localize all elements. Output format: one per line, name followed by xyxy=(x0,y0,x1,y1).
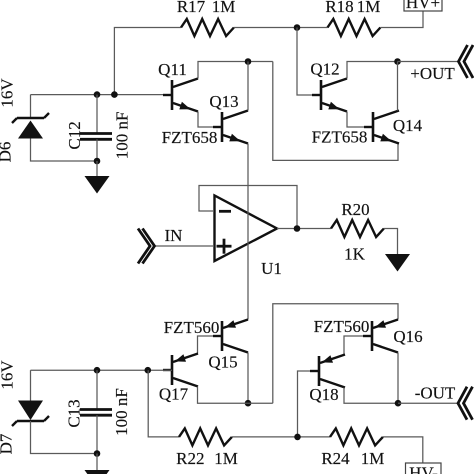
resistor R20 xyxy=(331,220,384,237)
ground below C13 xyxy=(85,454,110,474)
transistor Q15 xyxy=(213,320,248,353)
node bottom rail riser xyxy=(145,367,152,374)
svg-text:Q12: Q12 xyxy=(310,60,339,79)
transistor Q12 xyxy=(312,79,347,112)
svg-text:+OUT: +OUT xyxy=(410,64,455,83)
svg-text:U1: U1 xyxy=(261,259,282,278)
svg-text:C13: C13 xyxy=(65,399,84,427)
svg-text:100 nF: 100 nF xyxy=(113,112,132,160)
transistor Q16 xyxy=(363,320,398,353)
transistor Q11 xyxy=(163,79,198,112)
wire node to Q13 collector xyxy=(247,62,249,111)
zener D6 xyxy=(12,95,97,161)
wire Q11 emitter to Q13 base xyxy=(198,112,213,128)
wire R17 to R18 xyxy=(234,27,328,29)
node -OUT xyxy=(395,400,402,407)
svg-text:HV-: HV- xyxy=(409,464,438,474)
node rail riser xyxy=(111,91,118,98)
svg-text:16V: 16V xyxy=(0,78,17,108)
svg-text:Q18: Q18 xyxy=(309,385,338,404)
svg-text:1M: 1M xyxy=(212,0,236,16)
transistor Q14 xyxy=(364,111,399,144)
svg-text:1M: 1M xyxy=(214,449,238,468)
resistor R17 xyxy=(181,19,234,36)
transistor Q18 xyxy=(310,355,345,388)
wire Q16 base to Q18 emitter xyxy=(344,336,363,355)
wire op-amp output xyxy=(277,228,331,230)
wire node down to Q14 emitter return xyxy=(273,62,398,161)
capacitor C12 xyxy=(80,95,112,161)
svg-text:FZT560: FZT560 xyxy=(164,318,220,337)
wire bottom rail left segment xyxy=(148,370,179,437)
svg-text:Q11: Q11 xyxy=(158,60,187,79)
zener D7 xyxy=(12,370,97,453)
svg-text:FZT658: FZT658 xyxy=(162,128,218,147)
svg-text:HV+: HV+ xyxy=(406,0,440,12)
node Q11/Q13 collector xyxy=(245,58,252,65)
transistor Q13 xyxy=(213,111,248,144)
svg-text:-OUT: -OUT xyxy=(415,384,456,403)
node junction R17/R18/Q12-base xyxy=(294,24,301,31)
svg-text:D7: D7 xyxy=(0,433,16,454)
terminal -OUT chevron xyxy=(458,387,473,420)
svg-text:Q13: Q13 xyxy=(209,92,238,111)
svg-text:1M: 1M xyxy=(361,449,385,468)
node +OUT xyxy=(394,58,401,65)
wire R18 to HV+ xyxy=(380,11,423,28)
capacitor C13 xyxy=(80,370,112,453)
node Q15/Q17 collectors xyxy=(245,400,252,407)
svg-text:D6: D6 xyxy=(0,142,15,163)
wire top-left riser and R17 left lead xyxy=(114,28,181,95)
svg-text:1M: 1M xyxy=(357,0,381,16)
wire node riser to Q16 emitter xyxy=(273,304,398,404)
resistor R22 xyxy=(179,428,232,445)
svg-text:R18: R18 xyxy=(325,0,353,16)
wire -OUT node to terminal xyxy=(398,402,458,404)
svg-text:Q14: Q14 xyxy=(393,116,423,135)
wire lower bias rail xyxy=(31,369,173,371)
node op-amp output xyxy=(294,225,301,232)
svg-text:FZT560: FZT560 xyxy=(314,317,370,336)
terminal HV- box xyxy=(406,463,442,474)
svg-text:Q16: Q16 xyxy=(393,327,422,346)
svg-text:IN: IN xyxy=(165,226,183,245)
svg-text:R17: R17 xyxy=(177,0,206,16)
wire +OUT node to terminal xyxy=(398,61,459,63)
terminal IN chevron xyxy=(138,229,155,264)
wire R22 to R24 xyxy=(232,436,330,438)
op-amp U1 xyxy=(215,196,278,262)
wire +OUT node down to Q14 collector xyxy=(397,62,399,111)
wire feedback loop xyxy=(199,186,297,229)
node C12 top xyxy=(94,91,101,98)
node R22/R24 junction xyxy=(294,434,301,441)
wire Q15 collector down to node xyxy=(247,353,249,404)
resistor R18 xyxy=(328,19,381,36)
transistor Q17 xyxy=(163,354,198,387)
wire Q13 emitter to Q15 emitter (through op-amp) xyxy=(247,144,249,320)
wire Q15 base to Q17 emitter xyxy=(198,336,214,354)
wire left bias rail xyxy=(31,94,173,96)
svg-text:R24: R24 xyxy=(321,449,350,468)
terminal HV+ box xyxy=(404,0,442,11)
svg-text:Q17: Q17 xyxy=(159,385,189,404)
wire Q12 emitter to Q14 base xyxy=(347,112,364,128)
svg-text:FZT658: FZT658 xyxy=(312,128,368,147)
svg-text:Q15: Q15 xyxy=(208,353,237,372)
svg-text:1K: 1K xyxy=(344,245,366,264)
node D7/C13 junction xyxy=(94,450,101,457)
wire Q18 collector to -OUT node xyxy=(344,388,398,404)
ground below R20 xyxy=(385,254,410,272)
wire Q11 collector to node xyxy=(198,62,273,79)
wire Q12 base drop xyxy=(297,28,312,96)
svg-text:R20: R20 xyxy=(341,200,369,219)
node D6/C12 junction xyxy=(94,158,101,165)
wire Q12 collector to +OUT node xyxy=(347,62,398,79)
svg-text:16V: 16V xyxy=(0,360,17,390)
wire R24 to HV- xyxy=(383,437,423,463)
terminal +OUT chevron xyxy=(459,45,474,78)
svg-text:R22: R22 xyxy=(176,449,204,468)
resistor R24 xyxy=(330,428,383,445)
svg-text:100 nF: 100 nF xyxy=(112,388,131,436)
wire IN to + input xyxy=(155,245,214,247)
wire Q18 base drop to R22/R24 node xyxy=(298,371,311,437)
wire R20 right lead xyxy=(384,229,398,255)
wire Q16 collector down to -OUT node xyxy=(397,353,399,404)
ground below C12 xyxy=(85,161,110,194)
node C13 top xyxy=(94,367,101,374)
svg-text:C12: C12 xyxy=(65,121,84,149)
wire Q17 collector to node xyxy=(198,387,273,404)
